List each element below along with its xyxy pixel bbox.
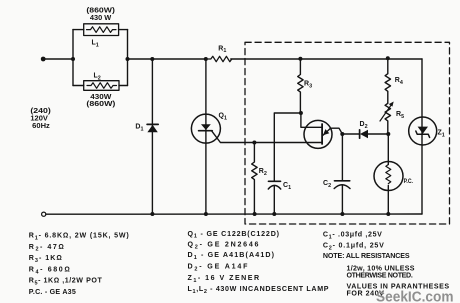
svg-text:SeekIC.com: SeekIC.com <box>376 290 454 303</box>
svg-text:Q1 - GE C122B(C122D): Q1 - GE C122B(C122D) <box>188 230 280 240</box>
svg-text:C1- .03μfd ,25V: C1- .03μfd ,25V <box>323 231 382 241</box>
svg-text:C2: C2 <box>323 180 331 189</box>
svg-text:L1: L1 <box>92 40 99 49</box>
resistor R4 <box>385 59 390 103</box>
svg-text:C2- 0.1μfd, 25V: C2- 0.1μfd, 25V <box>323 242 384 252</box>
svg-text:430W: 430W <box>90 94 112 101</box>
node: R2 bottom <box>253 212 257 216</box>
svg-text:D2- GE A14F: D2- GE A14F <box>188 263 249 273</box>
svg-text:D1 - GE A41B(A41D): D1 - GE A41B(A41D) <box>188 251 275 261</box>
svg-text:Z1: Z1 <box>438 130 445 139</box>
svg-text:Q1: Q1 <box>219 113 227 122</box>
parts list middle column <box>188 230 329 295</box>
node: R3 top junction <box>298 57 302 61</box>
node: R5 / PC junction <box>386 132 390 136</box>
capacitor C1 <box>268 181 280 214</box>
SCR Q1 <box>191 59 220 214</box>
resistor R2 <box>252 143 257 215</box>
wire: emitter node to D2 <box>342 133 359 135</box>
capacitor C2 <box>334 134 350 214</box>
svg-text:R1: R1 <box>218 45 226 54</box>
node: Q1 cathode bottom <box>204 212 208 216</box>
transistor Q2 <box>301 113 342 148</box>
resistor R3 <box>298 59 303 113</box>
wire: top rail R1 to Z1 corner <box>231 58 422 60</box>
label (240) 120V 60Hz <box>30 108 50 130</box>
node: lamp left junction <box>71 57 75 61</box>
zener diode Z1 <box>409 59 437 214</box>
wire: B2 node to C1 <box>274 113 301 181</box>
svg-text:60Hz: 60Hz <box>32 123 50 130</box>
svg-text:L1,L2 - 430W INCANDESCENT LAMP: L1,L2 - 430W INCANDESCENT LAMP <box>188 285 329 295</box>
svg-text:D1: D1 <box>135 124 143 133</box>
svg-text:NOTE: ALL RESISTANCES: NOTE: ALL RESISTANCES <box>323 252 410 260</box>
svg-text:120V: 120V <box>30 116 48 123</box>
svg-text:R1- 6.8KΩ, 2W (15K, 5W): R1- 6.8KΩ, 2W (15K, 5W) <box>29 232 130 242</box>
lamp L2 <box>73 81 128 91</box>
diode D2 <box>360 130 389 138</box>
svg-text:P.C.: P.C. <box>404 178 414 185</box>
svg-text:Q2- GE 2N2646: Q2- GE 2N2646 <box>188 241 259 251</box>
svg-text:(860W): (860W) <box>86 7 115 14</box>
node: R2 top junction <box>252 141 256 145</box>
node: PC bottom <box>386 212 390 216</box>
node: D1 top junction <box>150 57 154 61</box>
photocell PC <box>374 134 403 214</box>
parts list left column <box>29 232 130 296</box>
node: D1 bottom <box>150 212 154 216</box>
wire: input top to lamp network <box>43 58 73 60</box>
wire: Q1 gate to Q2 base-1 <box>212 131 323 143</box>
lamp L1 <box>73 24 128 36</box>
svg-text:R3- 1KΩ: R3- 1KΩ <box>29 254 62 264</box>
svg-text:(860W): (860W) <box>86 101 115 108</box>
svg-text:R4: R4 <box>395 77 403 86</box>
svg-text:D2: D2 <box>360 121 368 130</box>
node: lamp right junction <box>126 57 130 61</box>
wire: lamp network left vertical <box>72 30 74 86</box>
svg-text:C1: C1 <box>283 182 291 191</box>
node: Q2 emitter junction <box>340 132 344 136</box>
node: C2 bottom <box>340 212 344 216</box>
svg-text:(240): (240) <box>30 108 50 115</box>
svg-text:OTHERWISE NOTED.: OTHERWISE NOTED. <box>347 271 413 279</box>
svg-text:L2: L2 <box>94 73 101 82</box>
resistor R1 <box>206 56 232 61</box>
L2 value label 430W (860W) <box>86 94 115 108</box>
wire: lamp network right vertical <box>127 30 129 86</box>
node: C1 bottom <box>272 212 276 216</box>
AC input terminal top <box>41 57 46 62</box>
parts list right column and notes <box>323 231 449 298</box>
dashed control module box <box>245 42 450 224</box>
node: R4 top junction <box>386 56 390 60</box>
wire: top rail lamp to R1 <box>128 58 207 60</box>
bottom rail <box>46 213 422 215</box>
node: R3 bottom / Q2 B2 junction <box>299 111 303 115</box>
svg-text:R4- 680Ω: R4- 680Ω <box>29 266 70 276</box>
svg-text:R3: R3 <box>304 81 312 90</box>
svg-text:430 W: 430 W <box>90 15 112 22</box>
node: Q1 anode junction <box>204 57 208 61</box>
svg-text:R5- 1KΩ ,1/2W POT: R5- 1KΩ ,1/2W POT <box>29 277 103 287</box>
svg-text:R2- 47Ω: R2- 47Ω <box>29 243 64 253</box>
svg-text:P.C. - GE A35: P.C. - GE A35 <box>29 288 76 296</box>
L1 value label (860W) 430W <box>86 7 115 22</box>
svg-text:R2: R2 <box>259 168 267 177</box>
diode D1 <box>147 59 158 214</box>
AC input terminal bottom <box>42 212 46 216</box>
svg-text:Z1- 16 V ZENER: Z1- 16 V ZENER <box>188 274 260 284</box>
potentiometer R5 <box>380 102 394 135</box>
svg-text:R5: R5 <box>396 111 404 120</box>
